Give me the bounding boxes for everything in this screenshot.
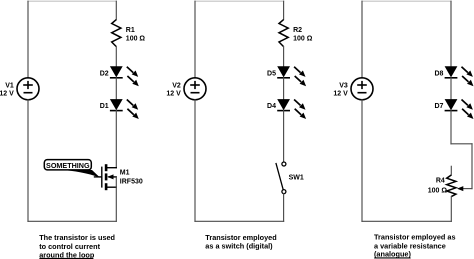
svg-text:R1: R1 <box>126 27 135 34</box>
resistor R1 <box>112 20 121 47</box>
wire D8 to D7 <box>450 78 452 100</box>
wire left upper (top to V1) <box>27 1 29 78</box>
transistor M1 (NMOS IRF530) <box>95 164 117 190</box>
wire D7 down to branch corner <box>450 111 452 144</box>
svg-text:D7: D7 <box>434 103 443 110</box>
voltage source V1 <box>17 78 39 100</box>
wire left lower (V2 to bottom) <box>194 100 196 222</box>
wire D2 to D1 <box>115 78 117 100</box>
wire left lower (V1 to bottom) <box>27 100 29 222</box>
LED D1 <box>110 100 139 120</box>
potentiometer R4 wiper arrow <box>457 186 463 191</box>
potentiometer R4 <box>447 175 456 197</box>
wire R4 to bottom <box>450 197 452 222</box>
svg-text:100 Ω: 100 Ω <box>293 35 313 42</box>
wire left upper (top to V2) <box>194 1 196 78</box>
wire R2 to D5 <box>283 47 285 67</box>
svg-text:V2: V2 <box>172 82 181 89</box>
wire R4 top lead (unconnected stub) <box>450 166 452 175</box>
svg-text:D1: D1 <box>100 103 109 110</box>
callout SOMETHING pointing at gate <box>44 160 100 178</box>
svg-text:100 Ω: 100 Ω <box>126 35 146 42</box>
resistor R2 <box>279 20 288 47</box>
wire D4 to SW1 <box>283 111 285 162</box>
svg-text:SW1: SW1 <box>289 175 304 182</box>
LED D7 <box>445 100 474 120</box>
svg-text:Transistor employed: Transistor employed <box>205 233 276 242</box>
wire R1 to D2 <box>115 47 117 67</box>
svg-text:IRF530: IRF530 <box>120 178 143 185</box>
svg-text:R4: R4 <box>436 177 445 184</box>
svg-text:D8: D8 <box>434 70 443 77</box>
wire bottom middle loop <box>195 220 284 222</box>
wire wiper horizontal <box>463 188 472 190</box>
svg-text:D2: D2 <box>100 70 109 77</box>
LED D8 <box>445 67 474 87</box>
svg-text:12 V: 12 V <box>333 91 348 98</box>
svg-text:M1: M1 <box>120 170 130 177</box>
wire D5 to D4 <box>283 78 285 100</box>
wire left upper (top to V3) <box>361 1 363 78</box>
wire branch vertical down right side <box>471 144 473 189</box>
svg-text:V3: V3 <box>339 82 348 89</box>
wire right top (to R1) <box>115 1 117 19</box>
wire top right loop <box>362 0 451 2</box>
wire bottom left loop <box>28 220 116 222</box>
svg-text:as a switch (digital): as a switch (digital) <box>205 242 273 251</box>
svg-text:100 Ω: 100 Ω <box>428 187 448 194</box>
switch SW1 (open SPST) <box>276 162 286 194</box>
LED D2 <box>110 67 139 87</box>
svg-text:(analogue): (analogue) <box>374 250 411 259</box>
svg-text:12 V: 12 V <box>0 91 14 98</box>
wire bottom right loop <box>362 220 451 222</box>
wire M1 source to bottom <box>115 177 117 221</box>
wire left lower (V3 to bottom) <box>361 100 363 222</box>
voltage source V3 <box>351 78 373 100</box>
LED D5 <box>277 67 306 87</box>
svg-text:around the loop: around the loop <box>39 250 95 259</box>
wire top left loop <box>28 0 116 2</box>
LED D4 <box>277 100 306 120</box>
wire right top (to D8) <box>450 1 452 67</box>
svg-text:V1: V1 <box>5 82 14 89</box>
voltage source V2 <box>184 78 206 100</box>
svg-text:12 V: 12 V <box>166 91 181 98</box>
svg-text:Transistor employed as: Transistor employed as <box>374 233 456 242</box>
svg-text:D4: D4 <box>267 103 276 110</box>
wire D1 to M1 drain <box>115 111 117 168</box>
svg-text:SOMETHING: SOMETHING <box>46 161 90 170</box>
wire SW1 to bottom <box>283 194 285 222</box>
wire top middle loop <box>195 0 284 2</box>
svg-text:D5: D5 <box>267 70 276 77</box>
svg-text:R2: R2 <box>293 27 302 34</box>
wire right top (to R2) <box>283 1 285 19</box>
wire branch horizontal to right <box>451 143 472 145</box>
